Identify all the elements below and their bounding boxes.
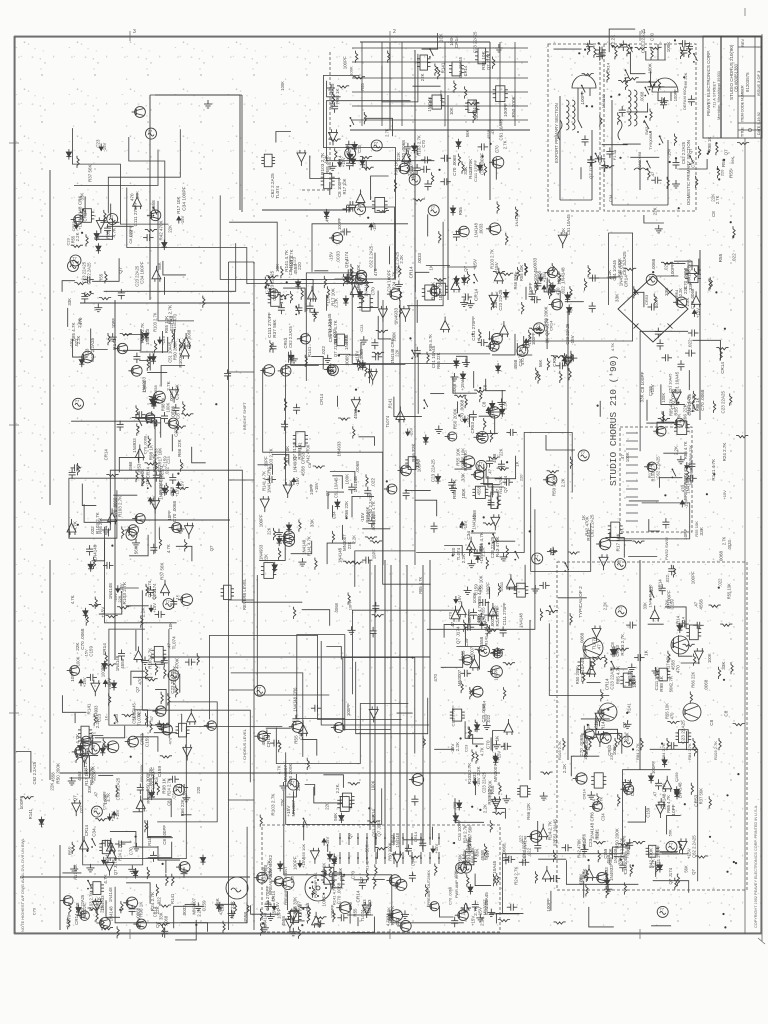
svg-text:56K: 56K xyxy=(683,865,688,873)
svg-text:C8 100PF: C8 100PF xyxy=(467,611,472,630)
svg-text:R55 10K: R55 10K xyxy=(301,844,306,860)
svg-text:100PF: 100PF xyxy=(503,103,509,117)
svg-text:+15V: +15V xyxy=(479,554,484,564)
svg-text:77: 77 xyxy=(72,255,77,260)
svg-text:CR14: CR14 xyxy=(413,831,418,842)
svg-text:R141: R141 xyxy=(86,703,91,714)
svg-text:220: 220 xyxy=(609,753,614,760)
svg-text:1N4148: 1N4148 xyxy=(518,612,523,627)
svg-text:+15V: +15V xyxy=(494,261,499,273)
svg-text:2.2K: 2.2K xyxy=(65,919,70,928)
svg-text:C34: C34 xyxy=(92,828,97,837)
svg-text:C8: C8 xyxy=(307,462,312,468)
svg-text:56K: 56K xyxy=(465,130,470,138)
svg-text:STUDIO CHORUS 210 ('90): STUDIO CHORUS 210 ('90) xyxy=(608,355,619,486)
svg-text:Meridian, Mississippi 39301: Meridian, Mississippi 39301 xyxy=(716,70,721,120)
svg-text:C23 22A25: C23 22A25 xyxy=(473,31,478,53)
svg-text:CR53: CR53 xyxy=(298,904,303,916)
svg-text:22K: 22K xyxy=(395,349,400,357)
svg-text:77: 77 xyxy=(624,736,629,741)
svg-text:.0068: .0068 xyxy=(502,843,507,855)
svg-text:C70: C70 xyxy=(351,870,356,879)
svg-text:R85 4.7K: R85 4.7K xyxy=(615,666,620,684)
svg-text:CR14: CR14 xyxy=(624,275,629,287)
svg-text:100K: 100K xyxy=(666,42,671,53)
svg-text:C111 270PF: C111 270PF xyxy=(502,602,507,625)
svg-text:C23 22A25: C23 22A25 xyxy=(498,289,503,311)
svg-text:470: 470 xyxy=(168,737,173,744)
svg-text:1N4148 CR6: 1N4148 CR6 xyxy=(687,259,692,285)
svg-text:C70 .0068: C70 .0068 xyxy=(80,628,85,650)
svg-text:PEAVEY ELECTRONICS CORP.: PEAVEY ELECTRONICS CORP. xyxy=(706,50,711,116)
svg-text:R85 4.7K: R85 4.7K xyxy=(418,576,423,593)
svg-text:BRIGHT SHIFT: BRIGHT SHIFT xyxy=(242,402,247,430)
svg-text:Q7: Q7 xyxy=(723,149,728,156)
svg-text:.0033: .0033 xyxy=(479,223,484,235)
svg-text:+15V: +15V xyxy=(100,606,105,618)
svg-text:C34: C34 xyxy=(175,391,181,400)
svg-text:33K: 33K xyxy=(463,167,468,175)
svg-text:1N4933: 1N4933 xyxy=(609,865,614,881)
svg-text:C34 100PF: C34 100PF xyxy=(140,261,145,284)
svg-text:TL074: TL074 xyxy=(360,909,365,922)
svg-text:Q7: Q7 xyxy=(359,876,364,883)
svg-text:Q7: Q7 xyxy=(209,545,214,551)
svg-text:.0068: .0068 xyxy=(640,91,645,102)
svg-text:2.2K: 2.2K xyxy=(75,232,80,241)
svg-text:CR14: CR14 xyxy=(606,62,611,73)
svg-text:4.7K: 4.7K xyxy=(70,595,75,604)
svg-text:1N4148: 1N4148 xyxy=(108,887,113,902)
svg-text:CR14: CR14 xyxy=(145,467,150,479)
svg-text:4558: 4558 xyxy=(698,599,703,610)
svg-text:22K: 22K xyxy=(347,542,352,550)
svg-text:R141 4.7K: R141 4.7K xyxy=(711,458,716,481)
svg-text:100K: 100K xyxy=(349,66,354,76)
svg-text:56K: 56K xyxy=(538,360,543,368)
svg-text:-15V: -15V xyxy=(409,427,414,436)
svg-text:77: 77 xyxy=(330,365,335,370)
svg-text:220: 220 xyxy=(519,474,524,481)
svg-text:C159: C159 xyxy=(674,772,679,782)
svg-text:REVERB LEVEL: REVERB LEVEL xyxy=(242,578,247,610)
svg-text:2: 2 xyxy=(393,29,396,35)
svg-text:4558: 4558 xyxy=(128,461,133,471)
svg-text:1N4933: 1N4933 xyxy=(344,334,349,350)
svg-text:DEFAM 60C: DEFAM 60C xyxy=(682,88,687,110)
svg-text:C23 22A25: C23 22A25 xyxy=(721,390,726,413)
svg-text:.0068: .0068 xyxy=(355,461,360,473)
svg-text:2.2K: 2.2K xyxy=(355,280,360,289)
svg-text:R66 22K: R66 22K xyxy=(683,72,688,88)
svg-text:R84 2.7K: R84 2.7K xyxy=(687,743,692,760)
svg-text:4.7K: 4.7K xyxy=(386,917,391,926)
svg-text:R17 10K: R17 10K xyxy=(176,197,181,214)
svg-text:100PF: 100PF xyxy=(417,459,422,472)
svg-text:C8 100PF: C8 100PF xyxy=(640,372,645,393)
svg-text:2.7K: 2.7K xyxy=(166,380,171,391)
svg-text:470: 470 xyxy=(137,677,142,685)
svg-text:77: 77 xyxy=(75,399,80,404)
svg-text:R24 2.7K: R24 2.7K xyxy=(513,867,518,885)
svg-text:C51 10A45: C51 10A45 xyxy=(498,118,503,140)
svg-text:C70: C70 xyxy=(495,145,500,153)
svg-text:R98 1K: R98 1K xyxy=(139,901,144,917)
svg-text:100K: 100K xyxy=(103,794,108,805)
svg-text:C23: C23 xyxy=(66,237,71,245)
svg-text:100PF: 100PF xyxy=(580,91,585,105)
svg-text:4.7K: 4.7K xyxy=(103,873,108,883)
svg-text:220: 220 xyxy=(325,802,330,810)
svg-text:77: 77 xyxy=(374,140,379,145)
svg-text:C51 10A45: C51 10A45 xyxy=(492,860,497,883)
svg-text:1K: 1K xyxy=(644,649,649,656)
svg-text:+15V: +15V xyxy=(82,677,87,687)
svg-text:100K: 100K xyxy=(648,63,653,74)
svg-text:+15V: +15V xyxy=(152,603,157,613)
svg-text:33K: 33K xyxy=(640,394,645,402)
svg-text:C70: C70 xyxy=(447,611,452,619)
svg-text:.022: .022 xyxy=(649,586,654,595)
svg-text:R55 10K: R55 10K xyxy=(726,583,731,599)
svg-text:100K: 100K xyxy=(461,488,466,498)
svg-text:.0033: .0033 xyxy=(727,540,732,551)
svg-text:R66 22K: R66 22K xyxy=(411,443,416,462)
svg-text:100K: 100K xyxy=(370,780,375,790)
svg-text:C34: C34 xyxy=(170,315,175,324)
svg-text:33K: 33K xyxy=(614,293,620,302)
svg-text:1N4933: 1N4933 xyxy=(94,705,99,720)
svg-text:C23 22A25: C23 22A25 xyxy=(482,771,487,793)
svg-text:R55: R55 xyxy=(99,273,104,281)
svg-text:R141: R141 xyxy=(147,835,152,846)
svg-text:100PF: 100PF xyxy=(342,56,347,69)
svg-text:R37 56K: R37 56K xyxy=(160,562,165,580)
svg-text:C23: C23 xyxy=(96,139,101,148)
svg-text:C70 .0068: C70 .0068 xyxy=(337,882,342,904)
svg-text:C34: C34 xyxy=(630,787,635,796)
svg-text:CR14: CR14 xyxy=(266,735,271,747)
svg-text:2.2K: 2.2K xyxy=(335,784,340,793)
svg-text:.47: .47 xyxy=(93,791,98,798)
svg-text:-15V: -15V xyxy=(372,222,377,231)
svg-text:2.7K: 2.7K xyxy=(518,347,523,356)
svg-text:2.2K: 2.2K xyxy=(455,741,460,751)
svg-text:33K: 33K xyxy=(87,785,92,793)
svg-text:C23: C23 xyxy=(357,144,362,152)
svg-text:1N4933: 1N4933 xyxy=(132,438,137,453)
svg-text:R55: R55 xyxy=(360,83,365,91)
svg-text:.022: .022 xyxy=(137,709,142,718)
svg-text:10PF: 10PF xyxy=(671,804,676,815)
svg-text:NOTE HIGHEST A/F DWG AVAIL DVL: NOTE HIGHEST A/F DWG AVAIL DVL DV6 UN BW… xyxy=(20,838,25,932)
svg-text:100PF: 100PF xyxy=(691,571,696,584)
svg-text:22K: 22K xyxy=(499,448,504,456)
svg-text:Q7 J174: Q7 J174 xyxy=(589,162,594,179)
svg-text:77: 77 xyxy=(357,204,362,209)
svg-text:1N4148 CR6: 1N4148 CR6 xyxy=(581,833,586,858)
svg-text:77: 77 xyxy=(649,275,654,280)
svg-text:33K: 33K xyxy=(79,193,84,201)
svg-text:TL074: TL074 xyxy=(385,415,390,427)
svg-text:C62 2.2A25: C62 2.2A25 xyxy=(116,777,121,800)
svg-text:DOMESTIC PRIMARY SECTION: DOMESTIC PRIMARY SECTION xyxy=(686,140,691,205)
svg-text:R24 2.7K: R24 2.7K xyxy=(722,443,727,462)
svg-text:3: 3 xyxy=(133,29,136,35)
svg-text:C62 2.2A25: C62 2.2A25 xyxy=(368,245,373,267)
svg-text:R66 22K: R66 22K xyxy=(526,803,531,820)
svg-text:C51 10A45: C51 10A45 xyxy=(533,268,538,291)
svg-text:1K: 1K xyxy=(104,715,109,720)
svg-text:+15V: +15V xyxy=(434,843,439,853)
svg-text:CR14: CR14 xyxy=(581,788,586,799)
svg-text:81203575: 81203575 xyxy=(745,72,750,92)
svg-text:R66 22K: R66 22K xyxy=(230,901,235,919)
svg-text:.0033: .0033 xyxy=(417,253,422,264)
svg-text:.0068: .0068 xyxy=(452,383,457,395)
svg-text:C62 2.2A25: C62 2.2A25 xyxy=(87,262,92,285)
svg-text:C70 .0068: C70 .0068 xyxy=(143,435,148,454)
svg-text:Q7 J174: Q7 J174 xyxy=(503,475,508,493)
svg-text:.022: .022 xyxy=(688,339,693,348)
svg-text:77: 77 xyxy=(668,842,673,847)
svg-text:R50 200K: R50 200K xyxy=(551,476,556,496)
svg-text:CR53: CR53 xyxy=(470,421,475,433)
svg-text:R55: R55 xyxy=(483,713,488,721)
svg-text:R66 22K: R66 22K xyxy=(683,403,689,422)
svg-text:100PF: 100PF xyxy=(654,296,659,308)
svg-text:-15V: -15V xyxy=(476,777,481,786)
svg-text:R98 1K: R98 1K xyxy=(322,863,327,877)
svg-text:CR14: CR14 xyxy=(153,906,158,917)
svg-text:100K: 100K xyxy=(707,653,712,663)
svg-text:.022: .022 xyxy=(560,286,565,295)
svg-text:77: 77 xyxy=(176,785,181,790)
svg-text:.022: .022 xyxy=(371,478,376,488)
svg-text:Q7 J174: Q7 J174 xyxy=(333,340,338,357)
svg-text:BREAKAWAY #3: BREAKAWAY #3 xyxy=(683,466,688,500)
svg-text:R55: R55 xyxy=(293,735,298,744)
svg-text:ITEM CODE NUMBER: ITEM CODE NUMBER xyxy=(741,85,745,122)
svg-text:4558: 4558 xyxy=(472,510,477,520)
svg-text:56K: 56K xyxy=(338,867,343,875)
svg-text:MN3007: MN3007 xyxy=(457,669,462,686)
svg-text:C23 22A25: C23 22A25 xyxy=(431,459,436,482)
svg-text:+15V: +15V xyxy=(325,836,330,846)
svg-text:2.2K: 2.2K xyxy=(562,763,567,773)
svg-text:R66 22K: R66 22K xyxy=(690,671,695,687)
svg-text:77: 77 xyxy=(618,606,623,611)
svg-text:C62 2.2A25: C62 2.2A25 xyxy=(90,337,95,362)
svg-text:.022: .022 xyxy=(79,805,84,814)
svg-text:100PF: 100PF xyxy=(439,89,444,101)
svg-text:R141 4.7K: R141 4.7K xyxy=(333,320,338,341)
svg-text:C62 2.2A25: C62 2.2A25 xyxy=(32,761,37,784)
svg-text:C111 270PF: C111 270PF xyxy=(656,845,661,868)
svg-text:77: 77 xyxy=(581,450,586,455)
svg-text:R103 2.7K: R103 2.7K xyxy=(620,633,625,656)
svg-text:C34: C34 xyxy=(331,511,336,519)
svg-text:100PF: 100PF xyxy=(546,898,551,912)
svg-text:R141: R141 xyxy=(28,809,33,820)
svg-text:CR53: CR53 xyxy=(153,448,158,460)
svg-text:R85 4.7K: R85 4.7K xyxy=(325,156,330,174)
svg-text:TYPICAL OF 2: TYPICAL OF 2 xyxy=(578,586,584,618)
svg-text:4.7K: 4.7K xyxy=(112,227,118,238)
svg-text:33K: 33K xyxy=(67,298,72,306)
svg-text:2.2K: 2.2K xyxy=(399,255,404,264)
svg-text:-15V: -15V xyxy=(463,521,468,530)
svg-text:1N4148 CR6: 1N4148 CR6 xyxy=(292,687,297,712)
svg-text:R84 2.7K: R84 2.7K xyxy=(661,743,666,760)
svg-text:77: 77 xyxy=(617,559,622,564)
svg-text:R141: R141 xyxy=(586,529,591,541)
svg-text:C159: C159 xyxy=(89,646,94,657)
svg-text:C23: C23 xyxy=(174,428,179,437)
svg-text:R17 10K: R17 10K xyxy=(342,178,347,194)
svg-text:C34 100PF: C34 100PF xyxy=(480,153,485,176)
svg-text:C70: C70 xyxy=(650,32,655,41)
svg-text:2.7K: 2.7K xyxy=(503,140,508,149)
svg-text:100PF: 100PF xyxy=(293,856,298,870)
svg-text:TITLE: TITLE xyxy=(741,127,745,137)
svg-text:22K: 22K xyxy=(266,527,271,535)
svg-text:C70: C70 xyxy=(348,902,353,911)
svg-text:+15V: +15V xyxy=(105,855,110,865)
svg-text:1N4148 CR6: 1N4148 CR6 xyxy=(390,338,395,363)
svg-text:R37 56K: R37 56K xyxy=(365,506,370,522)
svg-text:+15V: +15V xyxy=(472,258,477,270)
svg-text:R66 22K: R66 22K xyxy=(436,352,441,369)
svg-text:R141: R141 xyxy=(387,398,392,409)
svg-text:ISSUE 3 OF 3: ISSUE 3 OF 3 xyxy=(756,70,761,96)
svg-text:4.7K: 4.7K xyxy=(479,747,484,756)
svg-text:R37 56K: R37 56K xyxy=(272,319,277,338)
svg-text:-15V: -15V xyxy=(180,481,185,490)
svg-text:10K: 10K xyxy=(449,107,454,115)
svg-text:CR14: CR14 xyxy=(409,266,414,278)
svg-text:C23 22A25: C23 22A25 xyxy=(610,666,615,689)
svg-text:4.7K: 4.7K xyxy=(166,544,171,553)
svg-text:C8: C8 xyxy=(298,733,303,739)
svg-text:CR14: CR14 xyxy=(720,362,725,374)
svg-text:C23: C23 xyxy=(588,838,593,847)
svg-text:56K: 56K xyxy=(668,829,673,836)
svg-text:1N4148: 1N4148 xyxy=(395,832,400,847)
svg-text:R141: R141 xyxy=(170,893,175,904)
svg-text:.022: .022 xyxy=(321,346,327,356)
svg-text:+15V: +15V xyxy=(111,811,116,821)
svg-text:4558: 4558 xyxy=(671,660,676,671)
svg-text:2.2K: 2.2K xyxy=(77,318,82,328)
svg-text:R55 10K: R55 10K xyxy=(673,397,678,416)
svg-text:4558: 4558 xyxy=(281,916,286,927)
svg-text:CR14: CR14 xyxy=(463,65,468,76)
svg-text:C111 270PF: C111 270PF xyxy=(83,752,88,775)
svg-text:C70 .0068: C70 .0068 xyxy=(448,887,453,905)
svg-text:R84 2.7K: R84 2.7K xyxy=(635,743,640,760)
svg-text:CB #80851380: CB #80851380 xyxy=(734,63,739,92)
svg-text:1K: 1K xyxy=(581,515,586,520)
svg-text:+15V: +15V xyxy=(151,495,156,505)
svg-text:C34: C34 xyxy=(172,790,177,798)
svg-text:R55 10K: R55 10K xyxy=(694,521,699,537)
svg-text:56K: 56K xyxy=(134,546,139,554)
svg-text:C23: C23 xyxy=(464,744,469,752)
svg-text:CR53: CR53 xyxy=(552,355,557,367)
svg-text:77: 77 xyxy=(109,214,114,219)
svg-text:2.2K: 2.2K xyxy=(674,446,679,455)
svg-text:TL074: TL074 xyxy=(171,636,176,649)
svg-text:2.7K: 2.7K xyxy=(668,675,674,686)
svg-text:C159: C159 xyxy=(157,766,162,778)
svg-text:C34 100PF: C34 100PF xyxy=(182,186,188,210)
svg-text:1K: 1K xyxy=(429,265,434,270)
svg-text:C159: C159 xyxy=(603,848,608,859)
svg-text:Q7 J174: Q7 J174 xyxy=(455,626,460,644)
svg-text:SW2: SW2 xyxy=(645,127,649,135)
svg-text:.022: .022 xyxy=(595,831,600,840)
svg-text:.47: .47 xyxy=(149,715,154,721)
svg-text:.47: .47 xyxy=(482,617,487,624)
svg-text:.47: .47 xyxy=(653,791,658,797)
svg-text:Q7: Q7 xyxy=(463,265,468,271)
svg-text:C111 270PF: C111 270PF xyxy=(133,202,138,227)
svg-text:100PF: 100PF xyxy=(100,665,105,678)
svg-text:C70 .0068: C70 .0068 xyxy=(452,155,457,176)
svg-text:33K: 33K xyxy=(699,526,705,535)
svg-text:4558: 4558 xyxy=(346,273,351,283)
svg-text:.47: .47 xyxy=(597,644,602,651)
svg-text:10PF: 10PF xyxy=(277,908,282,918)
svg-text:2.7K: 2.7K xyxy=(385,128,390,137)
svg-text:1N4148: 1N4148 xyxy=(263,912,268,927)
svg-text:C23 22A25: C23 22A25 xyxy=(80,894,85,915)
svg-text:R55: R55 xyxy=(718,253,723,262)
svg-text:33K: 33K xyxy=(618,857,623,865)
svg-text:.47: .47 xyxy=(468,166,474,173)
svg-text:33K: 33K xyxy=(664,287,669,296)
svg-text:+15V: +15V xyxy=(650,384,655,395)
svg-text:CR14: CR14 xyxy=(102,643,107,655)
svg-text:C34: C34 xyxy=(608,194,613,202)
svg-text:+15V: +15V xyxy=(314,482,319,492)
svg-text:470: 470 xyxy=(622,835,627,842)
svg-text:77: 77 xyxy=(458,863,463,868)
svg-text:C8: C8 xyxy=(711,211,716,217)
svg-text:100K: 100K xyxy=(345,473,350,485)
svg-text:+15V: +15V xyxy=(460,380,465,390)
svg-text:10K: 10K xyxy=(438,33,444,42)
svg-text:-15V: -15V xyxy=(161,336,166,345)
svg-text:Q7: Q7 xyxy=(325,490,330,496)
svg-text:C62 2.2A25: C62 2.2A25 xyxy=(622,251,627,275)
svg-text:.0033: .0033 xyxy=(336,251,341,263)
svg-text:C159: C159 xyxy=(670,599,675,610)
svg-text:1: 1 xyxy=(643,29,646,35)
svg-text:C70: C70 xyxy=(32,907,37,915)
svg-text:PWR AMP IN 1: PWR AMP IN 1 xyxy=(314,872,318,898)
svg-text:56K: 56K xyxy=(215,898,220,906)
svg-text:+15V: +15V xyxy=(722,490,727,500)
svg-text:C8: C8 xyxy=(166,800,171,806)
svg-text:R50 200K: R50 200K xyxy=(544,306,549,326)
svg-text:100PF: 100PF xyxy=(670,263,675,277)
svg-text:470: 470 xyxy=(669,712,674,720)
svg-text:22K: 22K xyxy=(167,225,172,233)
svg-text:10K: 10K xyxy=(102,742,107,750)
svg-text:R17 10K: R17 10K xyxy=(356,264,361,281)
